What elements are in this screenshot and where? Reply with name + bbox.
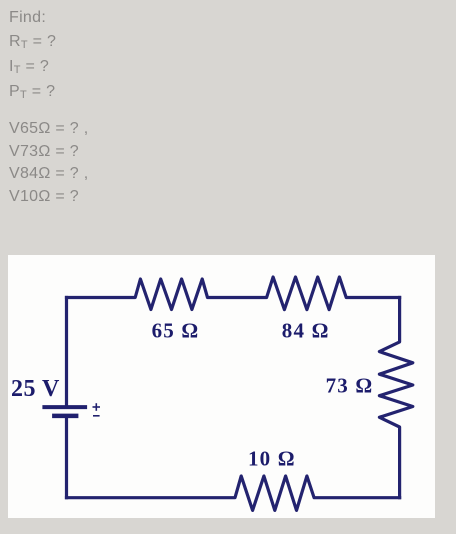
svg-text:73 Ω: 73 Ω [326, 373, 374, 397]
svg-text:25 V: 25 V [11, 376, 60, 402]
svg-text:65 Ω: 65 Ω [152, 319, 200, 343]
svg-text:10 Ω: 10 Ω [248, 447, 296, 471]
svg-text:84 Ω: 84 Ω [282, 318, 330, 342]
